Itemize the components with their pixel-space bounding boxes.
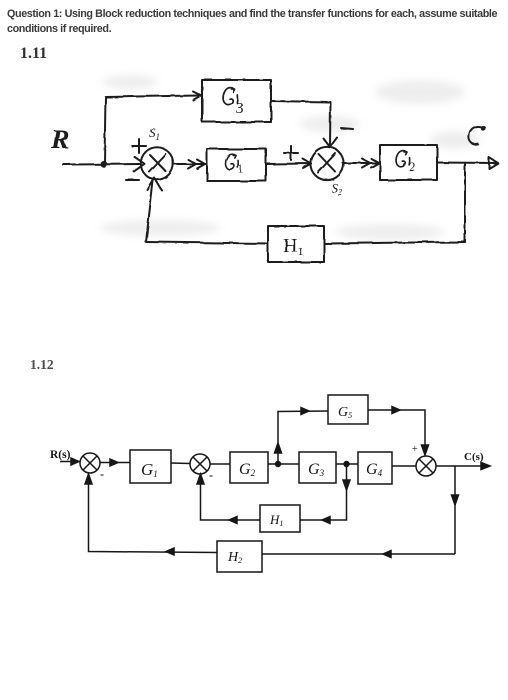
node: pickoff dot on input line bbox=[100, 160, 107, 167]
svg-text:3: 3 bbox=[236, 100, 244, 117]
svg-text:C(s): C(s) bbox=[464, 451, 484, 463]
summing junction J1 bbox=[80, 453, 100, 473]
block G5 bbox=[328, 395, 368, 424]
svg-text:G2: G2 bbox=[239, 461, 256, 478]
labels for diagram 1 (also wobbled) bbox=[50, 88, 486, 258]
wire: H2 right segment with left arrow bbox=[262, 553, 455, 555]
wire: G5 right and down into J3 with arrows bbox=[368, 410, 425, 455]
arrowhead into S1 from left bbox=[134, 157, 145, 172]
svg-text:G3: G3 bbox=[308, 461, 325, 478]
wire: G1 to S2 with + sign and arrowhead bbox=[266, 163, 311, 166]
label 1.12 bbox=[30, 357, 54, 373]
block H1 bbox=[260, 505, 300, 532]
svg-text:S1: S1 bbox=[149, 125, 160, 142]
block G1 bbox=[207, 149, 266, 181]
svg-text:S2: S2 bbox=[331, 180, 343, 197]
wire: R(s) input arrow bbox=[60, 461, 79, 463]
wire: J1 to G1 with arrow bbox=[100, 462, 130, 464]
wire: G2 to node A bbox=[268, 463, 299, 465]
svg-text:H1: H1 bbox=[283, 235, 303, 258]
block G1 bbox=[130, 450, 171, 483]
svg-text:R(s): R(s) bbox=[50, 449, 71, 461]
wire: feedback bottom run right segment bbox=[324, 242, 465, 244]
label C output bbox=[469, 126, 483, 144]
svg-text:-: - bbox=[100, 467, 104, 481]
wire: H1 to left corner bbox=[146, 242, 268, 244]
sign - below S1 bbox=[126, 179, 139, 181]
svg-text:R: R bbox=[50, 124, 69, 154]
node A: pickoff between G2 and G3 bbox=[275, 461, 281, 467]
labels for diagram 2 bbox=[50, 405, 484, 565]
block H1 bbox=[268, 226, 324, 262]
summing junction J3 bbox=[416, 456, 436, 476]
label G2 in block bbox=[396, 151, 415, 174]
svg-text:G5: G5 bbox=[338, 405, 352, 420]
svg-text:+: + bbox=[412, 444, 418, 455]
wire: H2 left segment to corner and up into J1 with arrows bbox=[89, 474, 218, 553]
wire: feedback up into S1 with arrowhead bbox=[146, 181, 153, 242]
wire: J3 to C(s) output arrow bbox=[436, 465, 489, 467]
label G3 in block bbox=[223, 88, 243, 117]
svg-text:G1: G1 bbox=[141, 460, 158, 479]
sign + at S1 bbox=[132, 139, 146, 153]
block G4 bbox=[358, 452, 392, 484]
wire: R input to summing junction S1 bbox=[63, 163, 140, 166]
node B: pickoff between G3 and G4 bbox=[343, 461, 349, 467]
question heading text bbox=[7, 7, 506, 37]
wire: node up to top branch bbox=[105, 97, 106, 164]
wire: node A up and right to G5 with arrows bbox=[278, 411, 328, 464]
block G2 bbox=[380, 145, 437, 180]
wire: feedback takeoff down from output line bbox=[464, 163, 466, 242]
wire: S1 to G1 with double chevrons bbox=[173, 163, 206, 165]
wire: H1 left to corner and up into J2 with arrows bbox=[201, 474, 261, 520]
wire: G1 to J2 bbox=[171, 462, 190, 465]
wire: output feedback drop to H2 with down arrow bbox=[454, 466, 456, 554]
wire: G4 to J3 bbox=[392, 465, 416, 467]
summing junction S1 bbox=[141, 147, 173, 179]
wire: top branch to G3 with arrowhead bbox=[106, 96, 201, 98]
scan smudges (decorative) bbox=[100, 75, 480, 240]
label 1.11 bbox=[20, 45, 47, 63]
sign - above S2 bbox=[341, 128, 353, 129]
svg-text:H1: H1 bbox=[269, 512, 283, 528]
svg-text:2: 2 bbox=[409, 160, 415, 174]
block G3 bbox=[202, 80, 271, 122]
block G3 bbox=[299, 452, 336, 483]
wire: G3 output right then down into S2 with arrowhead bbox=[271, 101, 331, 146]
label G1 in block bbox=[225, 154, 243, 176]
summing junction S2 bbox=[310, 147, 343, 180]
wire: node B down to H1 line with down arrow bbox=[300, 464, 347, 520]
svg-text:1: 1 bbox=[238, 163, 244, 175]
wire: G2 to output C with arrowhead bbox=[437, 162, 498, 165]
wire: S2 to G2 with double chevrons bbox=[343, 162, 379, 164]
block H2 bbox=[217, 541, 262, 572]
svg-text:G4: G4 bbox=[366, 461, 383, 478]
svg-text:-: - bbox=[209, 468, 213, 482]
wire: G3 to G4 through node B bbox=[336, 463, 358, 465]
block G2 bbox=[230, 452, 268, 483]
svg-text:H2: H2 bbox=[227, 550, 242, 565]
wire: J2 to G2 bbox=[210, 463, 230, 465]
summing junction J2 bbox=[190, 454, 210, 474]
